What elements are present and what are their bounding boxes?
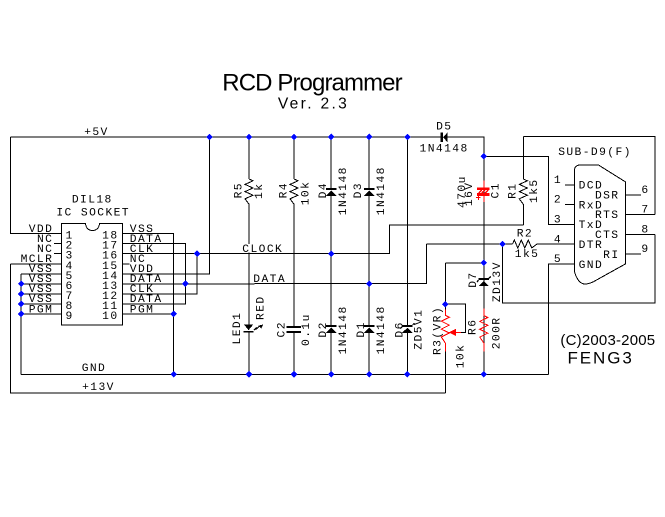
svg-text:R5: R5 — [234, 182, 246, 198]
wire DATA pins 17-11 riser — [122, 244, 185, 304]
junction C1 node TxD branch — [481, 153, 488, 160]
svg-text:R6: R6 — [468, 319, 480, 335]
svg-text:1N4148: 1N4148 — [338, 166, 350, 215]
wire IC pin2 NC stub — [54, 243, 62, 245]
svg-text:1k5: 1k5 — [515, 249, 540, 261]
svg-text:RTS: RTS — [595, 210, 620, 222]
node DATA — [252, 274, 286, 282]
wire D2 to GND — [330, 333, 332, 375]
IC socket DIL18 body — [62, 224, 123, 325]
junction GND rail x=249.0 — [246, 371, 253, 378]
svg-text:1N4148: 1N4148 — [420, 143, 469, 155]
svg-text:D6: D6 — [394, 321, 406, 337]
wire R1 top to RTS pin7 — [523, 137, 655, 215]
svg-text:PGM: PGM — [130, 304, 155, 316]
junction PGM row — [170, 311, 177, 318]
junction DATA at D3 bus — [366, 280, 373, 287]
svg-text:5: 5 — [554, 254, 562, 266]
wire R3 top to D7 node — [445, 262, 484, 264]
junction +5V rail x=249.0 — [246, 134, 253, 141]
diode D4 1N4148 — [326, 188, 336, 190]
wire +5V rail left segment — [10, 136, 441, 138]
svg-text:RCD Programmer: RCD Programmer — [222, 69, 402, 96]
junction VSS bus — [18, 311, 25, 318]
wire C1 node to TxD pin3 — [484, 156, 575, 224]
junction +5V rail x=209.5 — [206, 134, 213, 141]
wire R1 bottom lead — [522, 204, 524, 225]
diode D2 1N4148 — [326, 325, 336, 327]
junction DTR to CTS branch — [499, 241, 506, 248]
wire CLK pins 16-12 riser — [122, 254, 197, 294]
diode D3 1N4148 — [364, 188, 374, 190]
zener diode D7 ZD13V — [479, 278, 489, 280]
svg-text:C1: C1 — [491, 182, 503, 198]
svg-text:R3(VR): R3(VR) — [433, 306, 445, 355]
wire pin6 DSR stub — [625, 194, 641, 196]
svg-text:CLOCK: CLOCK — [242, 244, 283, 256]
junction +5V rail x=331.2 — [328, 134, 335, 141]
svg-text:RI: RI — [603, 250, 619, 262]
wire D6 to GND — [406, 333, 408, 375]
svg-text:+13V: +13V — [82, 382, 115, 394]
svg-text:D2: D2 — [318, 321, 330, 337]
svg-text:D4: D4 — [318, 182, 330, 198]
svg-text:GND: GND — [82, 363, 107, 375]
junction VSS bus — [18, 291, 25, 298]
svg-text:GND: GND — [579, 260, 604, 272]
svg-text:D7: D7 — [468, 271, 480, 287]
svg-text:10k: 10k — [456, 344, 468, 369]
wire D4 top — [330, 137, 332, 188]
svg-text:1k5: 1k5 — [529, 178, 541, 203]
wire GND rail — [21, 373, 549, 375]
junction DATA at DATA riser — [182, 280, 189, 287]
svg-text:CTS: CTS — [595, 230, 620, 242]
svg-text:1N4148: 1N4148 — [376, 305, 388, 354]
junction GND rail x=294.0 — [291, 371, 298, 378]
junction CLOCK at D4 bus — [328, 250, 335, 257]
capacitor C2 — [287, 326, 301, 328]
svg-text:200R: 200R — [492, 317, 504, 350]
svg-text:1: 1 — [554, 175, 562, 187]
wire IC pin9 stub — [21, 313, 62, 315]
svg-text:1N4148: 1N4148 — [338, 305, 350, 354]
wire IC pin6 stub — [21, 283, 62, 285]
junction GND rail x=407.4 — [404, 371, 411, 378]
wire IC pin7 stub — [21, 293, 62, 295]
wire R2 to pin4 DTR — [537, 243, 575, 245]
svg-text:16V: 16V — [464, 182, 476, 207]
svg-text:R2: R2 — [517, 229, 533, 241]
svg-text:PGM: PGM — [29, 304, 54, 316]
junction GND rail x=331.2 — [328, 371, 335, 378]
zener diode D6 ZD5V1 — [402, 325, 412, 327]
wire IC pin5 VSS stub — [21, 273, 62, 275]
svg-text:4: 4 — [554, 234, 562, 246]
svg-text:LED1: LED1 — [232, 312, 244, 345]
svg-text:D5: D5 — [436, 122, 452, 134]
svg-text:IC SOCKET: IC SOCKET — [56, 207, 130, 219]
wire pin7 RTS stub — [625, 214, 655, 216]
wire R5 top — [248, 137, 250, 179]
wire R5 to LED1 — [248, 204, 250, 324]
wire IC pin3 NC stub — [54, 253, 62, 255]
wire +13V rail — [10, 264, 445, 393]
svg-text:2: 2 — [554, 195, 562, 207]
junction +5V rail x=407.4 — [404, 134, 411, 141]
junction VSS bus — [18, 281, 25, 288]
wire down to R3 — [444, 263, 446, 310]
svg-text:6: 6 — [641, 185, 649, 197]
resistor R2 — [513, 240, 537, 248]
wire D6 top — [406, 137, 408, 325]
junction R3 top / wiper — [442, 301, 449, 308]
potentiometer R3 (VR) — [444, 310, 446, 316]
svg-text:10: 10 — [102, 311, 118, 323]
wire D3 top — [368, 137, 370, 188]
svg-text:D1: D1 — [356, 321, 368, 337]
wire pin10 PGM stub — [122, 313, 173, 315]
svg-text:(C)2003-2005: (C)2003-2005 — [560, 332, 655, 349]
junction D7 node R3 branch — [481, 260, 488, 267]
svg-text:9: 9 — [641, 244, 649, 256]
wire +5V to IC pin1 VDD — [10, 137, 61, 234]
wire R1 top lead — [522, 137, 524, 179]
resistor R6 — [483, 309, 485, 316]
wire VSS bus down — [20, 274, 22, 375]
wire R3 wiper loop — [445, 304, 465, 332]
LED1 RED — [244, 325, 253, 331]
wire GND rail to pin5 — [549, 264, 575, 374]
svg-text:DATA: DATA — [253, 274, 286, 286]
wire DATA line to DTR riser — [122, 244, 426, 284]
wire D3 to D1 — [368, 196, 370, 326]
wire CLOCK line to R1 bottom — [122, 225, 523, 254]
wire D1 to GND — [368, 333, 370, 375]
wire R4 to C2 — [293, 204, 295, 326]
wire IC pin4 MCLR stub — [10, 263, 61, 265]
wire pin8 CTS stub — [625, 233, 655, 235]
svg-text:8: 8 — [641, 224, 649, 236]
svg-text:ZD13V: ZD13V — [492, 261, 504, 302]
junction VSS bus — [18, 301, 25, 308]
wire DTR line left of R2 — [427, 243, 513, 245]
resistor R5 — [245, 179, 253, 204]
junction GND rail x=173.6 — [170, 371, 177, 378]
wire IC pin15 NC stub — [122, 263, 129, 265]
svg-text:R1: R1 — [507, 183, 519, 199]
junction +5V rail x=369.2 — [366, 134, 373, 141]
wire D5 cathode to C1 bus down to GND — [448, 137, 484, 374]
node CLOCK — [241, 244, 283, 252]
svg-text:+5V: +5V — [84, 127, 109, 139]
diode D5 1N4148 — [441, 133, 443, 143]
diode D1 1N4148 — [364, 325, 374, 327]
svg-text:ZD5V1: ZD5V1 — [413, 309, 425, 350]
wire pin18 VSS staircase to GND — [122, 234, 173, 375]
connector J1 SUB-D9(F) body — [575, 165, 626, 284]
svg-text:RED: RED — [255, 295, 267, 320]
svg-text:1k: 1k — [254, 183, 266, 199]
svg-text:DIL18: DIL18 — [72, 195, 113, 207]
junction GND rail x=483.8 — [481, 371, 488, 378]
svg-text:0.1u: 0.1u — [301, 313, 313, 346]
svg-text:FENG3: FENG3 — [568, 349, 634, 368]
wire DTR to CTS pin8 — [503, 234, 655, 303]
junction +5V rail x=294.0 — [291, 134, 298, 141]
resistor R4 — [290, 179, 298, 204]
junction GND rail x=369.2 — [366, 371, 373, 378]
wire pin14 VDD riser to +5V rail — [122, 137, 209, 274]
wire C2 to GND — [293, 333, 295, 375]
wire pin2 RxD stub — [565, 204, 575, 206]
svg-text:DSR: DSR — [595, 190, 620, 202]
svg-text:7: 7 — [641, 205, 649, 217]
wire IC pin8 stub — [21, 303, 62, 305]
wire R4 top — [293, 137, 295, 179]
svg-text:10k: 10k — [301, 181, 313, 206]
wire D4 to D2 — [330, 196, 332, 326]
svg-text:9: 9 — [66, 311, 74, 323]
capacitor C1 (electrolytic, red) — [483, 180, 485, 187]
wire LED1 to GND — [248, 333, 250, 375]
resistor R1 — [519, 179, 527, 204]
svg-text:D3: D3 — [353, 182, 365, 198]
svg-text:SUB-D9(F): SUB-D9(F) — [558, 147, 632, 159]
svg-text:Ver. 2.3: Ver. 2.3 — [278, 96, 349, 113]
svg-text:C2: C2 — [276, 321, 288, 337]
svg-text:3: 3 — [554, 215, 562, 227]
wire R3 bottom to +13V — [444, 352, 446, 393]
svg-text:1N4148: 1N4148 — [376, 166, 388, 215]
junction CLOCK at CLK riser — [194, 250, 201, 257]
wire pin9 RI stub — [625, 253, 641, 255]
wire pin1 DCD stub — [565, 184, 575, 186]
svg-text:R4: R4 — [279, 182, 291, 198]
